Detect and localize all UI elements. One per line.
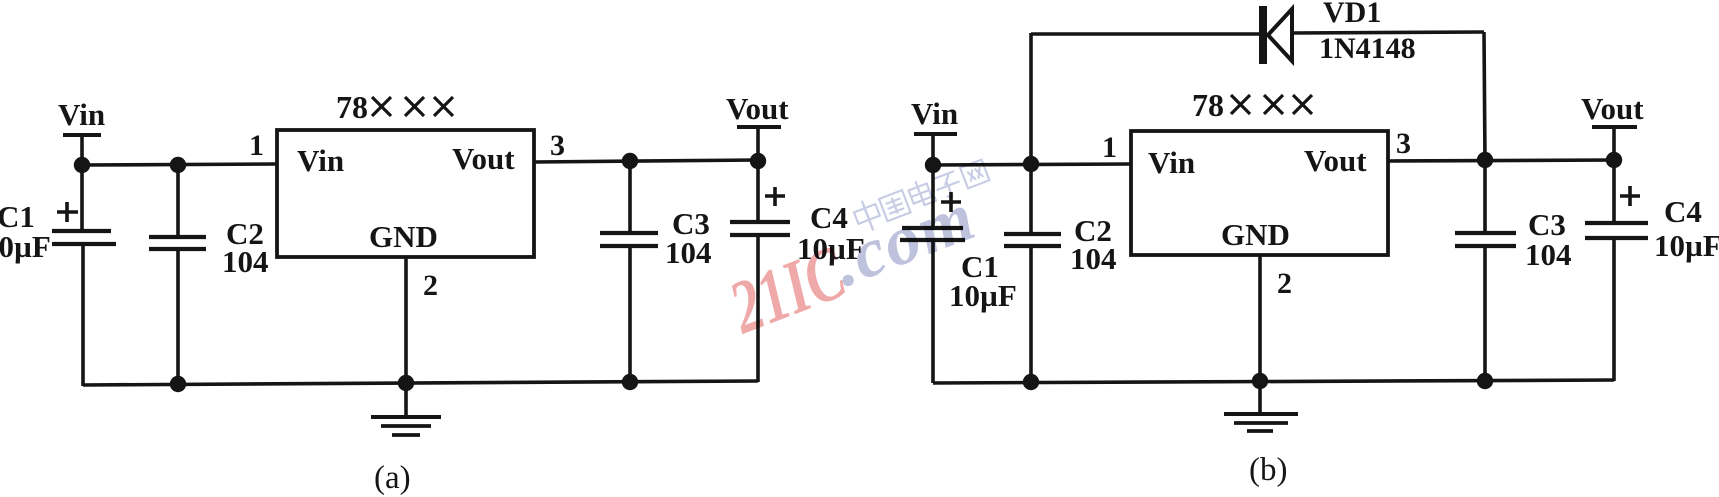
Vout terminal bar (a) — [737, 125, 781, 129]
svg-text:Vout: Vout — [1581, 91, 1644, 126]
node Vin label (b) — [911, 96, 958, 131]
caption (b) — [1249, 452, 1287, 488]
svg-text:(a): (a) — [374, 460, 411, 496]
svg-text:1: 1 — [249, 129, 264, 162]
ground symbol (a) — [371, 383, 441, 435]
pin Vout label inside box (a) — [452, 141, 515, 176]
junction dot C3 bottom (b) — [1477, 373, 1493, 389]
svg-text:GND: GND — [369, 219, 438, 254]
junction dot Vin rail (b) — [925, 157, 941, 173]
junction dot diode branch (b) — [1023, 156, 1039, 172]
node Vin label (a) — [58, 97, 105, 132]
value 1N4148 — [1319, 32, 1416, 65]
wire Vout terminal to rail (a) — [756, 127, 760, 161]
pin Vout label inside box (b) — [1304, 143, 1367, 178]
wire Vout terminal to rail (b) — [1612, 127, 1616, 160]
svg-text:Vout: Vout — [726, 91, 789, 126]
svg-text:104: 104 — [222, 244, 269, 279]
wire input rail (a) — [82, 164, 277, 165]
watermark .com text — [822, 178, 986, 302]
node Vout label (a) — [726, 91, 789, 126]
svg-text:10µF: 10µF — [949, 278, 1017, 313]
label C2 (b) — [1074, 213, 1112, 248]
Vin terminal bar (a) — [63, 133, 101, 137]
plus sign C4 (a) — [765, 187, 785, 206]
Vout terminal bar (b) — [1592, 125, 1637, 129]
wire GND pin 2 (b) — [1258, 255, 1262, 381]
label C4 (a) — [810, 200, 848, 235]
svg-text:Vout: Vout — [452, 141, 515, 176]
svg-text:GND: GND — [1221, 217, 1290, 252]
label 78xxx (a) — [336, 89, 453, 125]
label 78xxx (b) — [1192, 87, 1312, 123]
wire ground rail (b) — [933, 380, 1614, 383]
pin 3 label (a) — [550, 129, 565, 162]
pin 1 label (b) — [1102, 131, 1117, 164]
wire Vin terminal to input rail (b) — [931, 134, 935, 165]
pin 2 label (a) — [423, 269, 438, 302]
wire diode to right corner (b) — [1292, 32, 1484, 33]
svg-text:Vin: Vin — [297, 143, 344, 178]
wire Vin terminal to input rail (a) — [80, 135, 84, 166]
svg-text:(b): (b) — [1249, 452, 1287, 488]
wire GND pin 2 (a) — [404, 257, 408, 383]
pin Vin label inside box (b) — [1148, 145, 1195, 180]
watermark chinese characters — [851, 156, 991, 235]
caption (a) — [374, 460, 411, 496]
label C4 (b) — [1664, 194, 1702, 229]
wire output rail (b) — [1388, 160, 1615, 161]
capacitor C4 (a) electrolytic — [730, 161, 790, 382]
junction dot C3 top (a) — [622, 153, 638, 169]
junction dot C2 bottom (a) — [170, 376, 186, 392]
pin Vin label inside box (a) — [297, 143, 344, 178]
pin 1 label (a) — [249, 129, 264, 162]
svg-text:Vin: Vin — [58, 97, 105, 132]
wire diode anode side left (b) — [1031, 32, 1261, 36]
watermark 21IC text — [718, 230, 857, 350]
regulator U2 78xxx box (b) — [1131, 131, 1388, 255]
junction dot C3 top (b) — [1477, 152, 1493, 168]
wire diode branch riser right (b) — [1484, 32, 1485, 161]
label VD1 — [1323, 0, 1381, 29]
svg-text:2: 2 — [423, 269, 438, 302]
pin 2 label (b) — [1277, 267, 1292, 300]
junction dot GND pin (b) — [1252, 373, 1268, 389]
value 104 C2 (a) — [222, 244, 269, 279]
value 10uF C4 (b) — [1654, 228, 1719, 263]
svg-text:104: 104 — [1525, 237, 1572, 272]
label C1 (b) — [961, 249, 999, 284]
label C3 (a) — [672, 206, 710, 241]
junction dot C2 bottom (b) — [1023, 374, 1039, 390]
capacitor C3 (b) — [1455, 160, 1516, 382]
svg-text:2: 2 — [1277, 267, 1292, 300]
value 10uF C4 (a) — [797, 231, 865, 266]
ground symbol (b) — [1224, 381, 1298, 431]
diode VD1 triangle — [1268, 9, 1292, 61]
svg-text:3: 3 — [1396, 127, 1411, 160]
junction dot Vout rail (a) — [750, 153, 766, 169]
svg-text:Vin: Vin — [911, 96, 958, 131]
wire diode branch riser left (b) — [1029, 33, 1033, 164]
wire input rail (b) — [933, 164, 1131, 165]
pin 3 label (b) — [1396, 127, 1411, 160]
label C1 (a) — [0, 199, 35, 234]
plus sign C4 (b) — [1620, 186, 1640, 206]
capacitor C3 (a) — [600, 161, 658, 383]
svg-text:Vin: Vin — [1148, 145, 1195, 180]
plus sign C1 (b) — [941, 192, 961, 212]
svg-text:Vout: Vout — [1304, 143, 1367, 178]
junction dot Vout rail (b) — [1606, 152, 1622, 168]
capacitor C4 (b) electrolytic — [1585, 160, 1648, 381]
pin GND label inside box (b) — [1221, 217, 1290, 252]
junction dot C2 top (a) — [170, 157, 186, 173]
plus sign C1 (a) — [57, 202, 78, 222]
capacitor C2 (b) — [1004, 164, 1061, 383]
value 104 C2 (b) — [1070, 241, 1117, 276]
Vin terminal bar (b) — [914, 132, 957, 136]
value 10uF C1 (b) — [949, 278, 1017, 313]
svg-text:1N4148: 1N4148 — [1319, 32, 1416, 65]
svg-text:104: 104 — [665, 235, 712, 270]
value 10uF C1 (a) — [0, 229, 51, 264]
label C3 (b) — [1528, 207, 1566, 242]
capacitor C2 (a) — [149, 165, 206, 385]
label C2 (a) — [226, 216, 264, 251]
svg-text:78: 78 — [1192, 87, 1224, 123]
svg-text:10µF: 10µF — [0, 229, 51, 264]
node Vout label (b) — [1581, 91, 1644, 126]
junction dot GND pin (a) — [398, 375, 414, 391]
diode VD1 cathode bar — [1259, 6, 1267, 64]
capacitor C1 (b) electrolytic — [900, 165, 965, 383]
svg-text:C4: C4 — [1664, 194, 1702, 229]
junction dot Vin rail (a) — [74, 157, 90, 173]
svg-text:10µF: 10µF — [1654, 228, 1719, 263]
regulator U1 78xxx box (a) — [277, 130, 534, 257]
svg-text:104: 104 — [1070, 241, 1117, 276]
svg-text:1: 1 — [1102, 131, 1117, 164]
value 104 C3 (b) — [1525, 237, 1572, 272]
wire ground rail (a) — [83, 381, 758, 385]
junction dot C3 bottom (a) — [622, 374, 638, 390]
svg-text:VD1: VD1 — [1323, 0, 1381, 29]
pin GND label inside box (a) — [369, 219, 438, 254]
wire output rail (a) — [534, 160, 759, 162]
capacitor C1 (a) electrolytic — [52, 165, 116, 386]
svg-text:3: 3 — [550, 129, 565, 162]
svg-text:78: 78 — [336, 89, 368, 125]
value 104 C3 (a) — [665, 235, 712, 270]
